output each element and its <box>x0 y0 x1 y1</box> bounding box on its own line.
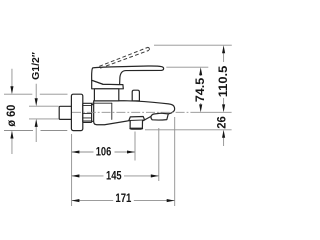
dim shaft G12 <box>35 84 37 142</box>
escutcheon rosette <box>71 94 82 130</box>
arrow 26 bottom (up) <box>222 130 225 138</box>
svg-text:G1/2″: G1/2″ <box>31 52 42 80</box>
arrow diam60 top (down) <box>10 86 13 94</box>
arrow 74.5 top (up) <box>199 67 202 75</box>
svg-text:26: 26 <box>215 116 229 129</box>
ext line G12 bottom <box>29 118 59 120</box>
arrow 110.5 top (up) <box>222 45 225 53</box>
ext line diam60 top <box>4 93 68 95</box>
arrow 171 left <box>71 199 79 202</box>
hand shower hook under spout tip <box>151 113 168 120</box>
arrow G12 top (down) <box>35 98 38 106</box>
arrow 106 left <box>71 150 79 153</box>
aerator bottom band <box>130 128 142 130</box>
ext line 171 <box>174 117 176 206</box>
arrow 106 right <box>127 150 135 153</box>
spout and body silhouette <box>94 101 175 125</box>
ext line 145 <box>158 128 160 181</box>
arrow 110.5-26 shared (down) <box>222 104 225 112</box>
ext line top 110.5 <box>154 44 232 46</box>
nut facet lines <box>83 105 92 121</box>
dim shaft diam60 <box>11 69 13 154</box>
ext line outlet level 26 <box>145 129 232 131</box>
ext line diam60 bottom <box>4 130 67 132</box>
arrowheads black <box>10 45 225 202</box>
arrow diam60 bottom (up) <box>10 131 13 139</box>
groups: dims in gray, faucet dark <box>4 45 232 206</box>
svg-text:106: 106 <box>96 144 112 158</box>
faucet drawing <box>59 66 174 131</box>
svg-text:ø 60: ø 60 <box>5 105 18 127</box>
wall connection pipe stub G1/2 <box>59 106 71 119</box>
arrow 145 left <box>71 174 79 177</box>
dim line 145 <box>71 175 158 177</box>
dim shaft 26 lower <box>223 137 225 146</box>
cap band under handle <box>92 80 124 89</box>
handle lever with dome <box>92 66 164 85</box>
adapter between nut and body <box>92 105 95 122</box>
arrow 74.5 bottom (down) <box>199 104 202 112</box>
dim shaft 74.5 <box>200 73 202 105</box>
arrow G12 bottom (up) <box>35 119 38 127</box>
phantom tip arc <box>147 47 149 50</box>
ext line 106 <box>134 132 136 161</box>
svg-text:110.5: 110.5 <box>216 65 230 97</box>
dim line 171 <box>71 200 174 202</box>
svg-text:74.5: 74.5 <box>193 78 207 103</box>
dim line 106 <box>71 151 135 153</box>
svg-text:171: 171 <box>115 191 131 205</box>
hex union nut <box>83 103 92 122</box>
ext line wall plane <box>71 134 73 206</box>
arrow 145 right <box>151 174 159 177</box>
phantom lever upper edge <box>99 48 147 67</box>
ext line top 74.5 <box>166 66 208 68</box>
phantom raised handle dashed <box>99 47 149 68</box>
aerator lip line <box>129 119 145 122</box>
centerline axis right segment <box>196 111 232 113</box>
aerator outlet under spout <box>129 117 145 130</box>
body top joint line <box>92 102 112 104</box>
ext line G12 top <box>29 105 59 107</box>
arrow 171 right <box>167 199 175 202</box>
diverter knob <box>132 90 139 101</box>
cap block <box>94 89 118 101</box>
body right joint line <box>111 103 113 119</box>
svg-text:145: 145 <box>106 169 122 183</box>
centerline axis dash-dot on top <box>72 111 196 113</box>
dim shaft 110.5 <box>223 53 225 105</box>
phantom lever lower edge <box>100 50 149 68</box>
